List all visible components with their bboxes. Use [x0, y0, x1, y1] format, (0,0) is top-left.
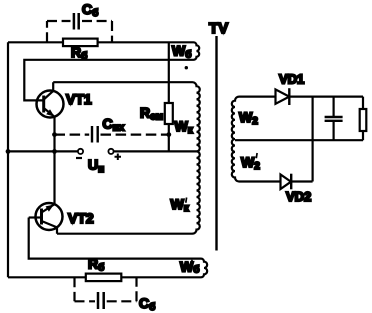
wire bottom rail — [8, 276, 201, 278]
wire center tap W2 — [235, 139, 363, 141]
svg-text:Wк: Wк — [175, 118, 194, 136]
resistor R6 bottom — [86, 274, 122, 282]
svg-text:Cвх: Cвх — [103, 116, 125, 134]
resistor load — [362, 97, 364, 141]
winding W6-prime (base winding VT2) — [201, 259, 207, 278]
svg-text:VD1: VD1 — [279, 72, 304, 87]
svg-text:VT1: VT1 — [66, 91, 92, 107]
diode VD1 — [276, 89, 290, 103]
svg-text:VT2: VT2 — [68, 210, 94, 226]
wire top output rail — [289, 95, 363, 97]
svg-text:W2: W2 — [239, 109, 258, 127]
svg-text:Uп: Uп — [88, 157, 104, 176]
winding W2 / W2-prime (secondary) — [232, 97, 239, 182]
wire left rail — [7, 42, 9, 277]
svg-text:Cб: Cб — [139, 295, 155, 313]
capacitor Cvx (dashed input cap) — [55, 134, 90, 136]
capacitor C6 bottom (dashed branch) — [75, 277, 137, 301]
wire top base wire VT1 — [8, 41, 194, 43]
node Rsm/Cvx junction — [166, 132, 171, 137]
svg-text:Wб: Wб — [180, 259, 199, 276]
node rail/Up junction — [6, 149, 11, 154]
wire VD1-VD2 junction vertical — [312, 97, 314, 182]
wire Up minus — [8, 150, 78, 152]
wire VT1 collector to Wk top — [53, 81, 192, 83]
transistor VT1 — [37, 82, 92, 117]
label minus — [76, 157, 82, 159]
transformer core TV — [215, 36, 217, 251]
polarity dot W6 — [185, 66, 188, 69]
svg-text:TV: TV — [209, 20, 228, 37]
transistor VT2 — [29, 203, 94, 234]
wire emitter rail — [53, 117, 55, 205]
wire VT2 collector to Wk2 bottom — [57, 233, 193, 235]
svg-text:Rсм: Rсм — [140, 105, 163, 123]
terminal Up minus — [78, 149, 83, 154]
capacitor output filter — [333, 97, 335, 141]
node emitter/Cvx junction — [52, 132, 57, 137]
svg-text:VD2: VD2 — [286, 189, 311, 204]
svg-text:Wб: Wб — [172, 43, 191, 61]
diode VD2 — [281, 175, 292, 190]
label plus — [115, 154, 122, 161]
capacitor C6 top (dashed branch) — [47, 21, 112, 42]
wire VT2 base loop — [29, 218, 201, 259]
terminal Up plus — [108, 149, 113, 154]
winding Wk / Wk2 (collector windings) — [193, 82, 200, 233]
wire W6 bottom to VT1 base — [24, 60, 193, 101]
wire VD2 cathode to junction — [291, 180, 312, 182]
wire W2 top to VD1 — [239, 95, 275, 97]
winding W6 (base winding VT1) — [194, 42, 200, 60]
wire W2-prime bottom to VD2 — [239, 180, 280, 182]
node emitter/Up junction — [52, 149, 57, 154]
resistor R6 top — [63, 39, 98, 47]
wire Up plus to center tap — [114, 150, 197, 152]
svg-text:Cб: Cб — [82, 1, 98, 19]
resistor Rsm — [168, 42, 170, 151]
